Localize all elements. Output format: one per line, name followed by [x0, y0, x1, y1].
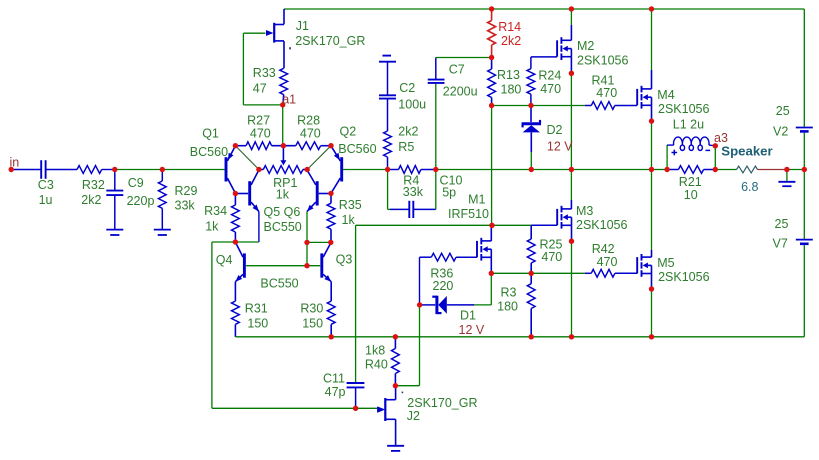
svg-text:47: 47: [253, 81, 267, 95]
svg-text:R40: R40: [365, 357, 388, 371]
svg-text:1u: 1u: [39, 193, 53, 207]
svg-text:Q2: Q2: [340, 125, 357, 139]
svg-text:R32: R32: [82, 178, 105, 192]
svg-text:47p: 47p: [325, 385, 346, 399]
svg-text:1k: 1k: [342, 213, 356, 227]
svg-text:C9: C9: [128, 176, 144, 190]
svg-text:Q1: Q1: [202, 126, 219, 140]
svg-text:100u: 100u: [398, 97, 426, 111]
svg-text:D1: D1: [460, 309, 476, 323]
svg-text:M1: M1: [468, 192, 485, 206]
svg-text:C7: C7: [449, 63, 465, 77]
svg-text:2SK1056: 2SK1056: [658, 102, 709, 116]
svg-text:6.8: 6.8: [741, 180, 758, 194]
svg-text:2SK170_GR: 2SK170_GR: [407, 396, 477, 410]
svg-text:R30: R30: [300, 301, 323, 315]
svg-text:150: 150: [247, 317, 268, 331]
svg-text:in: in: [10, 156, 20, 170]
svg-text:1k8: 1k8: [365, 343, 385, 357]
svg-text:10: 10: [684, 188, 698, 202]
svg-text:BC550: BC550: [260, 276, 298, 290]
svg-text:180: 180: [497, 299, 518, 313]
svg-text:M2: M2: [577, 39, 594, 53]
svg-text:1k: 1k: [276, 188, 290, 202]
svg-text:R3: R3: [501, 285, 517, 299]
svg-text:470: 470: [540, 82, 561, 96]
svg-text:12 V: 12 V: [547, 139, 573, 153]
svg-text:R21: R21: [679, 175, 702, 189]
svg-text:M3: M3: [576, 204, 593, 218]
svg-text:BC560: BC560: [338, 142, 376, 156]
svg-text:R33: R33: [253, 66, 276, 80]
svg-text:2SK1056: 2SK1056: [658, 270, 709, 284]
svg-text:V2: V2: [773, 124, 788, 138]
svg-text:a1: a1: [282, 92, 296, 106]
svg-text:470: 470: [250, 126, 271, 140]
svg-text:Speaker: Speaker: [721, 144, 772, 159]
svg-text:2k2: 2k2: [501, 34, 521, 48]
svg-text:IRF510: IRF510: [448, 207, 489, 221]
svg-text:220: 220: [433, 279, 454, 293]
svg-text:C3: C3: [38, 178, 54, 192]
svg-text:R24: R24: [538, 69, 561, 83]
svg-text:Q3: Q3: [336, 252, 353, 266]
svg-text:150: 150: [302, 317, 323, 331]
svg-text:R42: R42: [592, 242, 615, 256]
svg-text:220p: 220p: [127, 194, 155, 208]
svg-text:R5: R5: [398, 140, 414, 154]
svg-text:33k: 33k: [403, 185, 424, 199]
svg-text:2SK1056: 2SK1056: [576, 218, 627, 232]
svg-text:2SK170_GR: 2SK170_GR: [295, 34, 365, 48]
svg-text:5p: 5p: [442, 186, 456, 200]
svg-text:BC550: BC550: [264, 220, 302, 234]
svg-text:470: 470: [541, 250, 562, 264]
svg-text:J1: J1: [296, 19, 309, 33]
svg-text:M5: M5: [657, 256, 674, 270]
svg-text:R13: R13: [497, 68, 520, 82]
svg-text:R31: R31: [245, 301, 268, 315]
svg-text:R35: R35: [339, 198, 362, 212]
svg-text:M4: M4: [657, 88, 674, 102]
svg-text:D2: D2: [547, 123, 563, 137]
svg-text:470: 470: [596, 86, 617, 100]
svg-text:C2: C2: [399, 81, 415, 95]
svg-text:V7: V7: [773, 237, 788, 251]
svg-text:470: 470: [300, 126, 321, 140]
svg-text:180: 180: [501, 83, 522, 97]
svg-text:2k2: 2k2: [81, 193, 101, 207]
svg-text:R34: R34: [204, 204, 227, 218]
svg-text:12 V: 12 V: [459, 323, 485, 337]
svg-text:25: 25: [776, 104, 790, 118]
svg-text:2SK1056: 2SK1056: [577, 54, 628, 68]
svg-text:470: 470: [597, 255, 618, 269]
svg-text:L1 2u: L1 2u: [673, 117, 704, 131]
svg-text:2200u: 2200u: [443, 84, 478, 98]
svg-text:Q4: Q4: [216, 253, 233, 267]
svg-text:C11: C11: [323, 371, 345, 385]
svg-text:25: 25: [775, 217, 789, 231]
svg-text:J2: J2: [407, 409, 420, 423]
svg-text:1k: 1k: [205, 220, 219, 234]
svg-text:R14: R14: [498, 20, 521, 34]
svg-text:33k: 33k: [175, 199, 196, 213]
svg-text:Q5 Q6: Q5 Q6: [264, 205, 301, 219]
svg-text:R29: R29: [175, 184, 198, 198]
svg-text:2k2: 2k2: [398, 124, 418, 138]
svg-text:BC560: BC560: [190, 145, 228, 159]
